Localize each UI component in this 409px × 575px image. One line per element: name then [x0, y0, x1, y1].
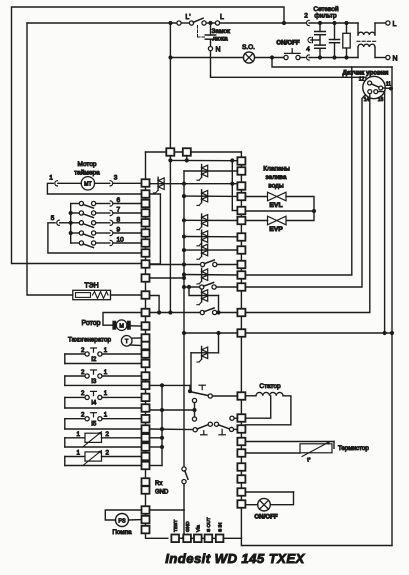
- lamp ON/OFF indicator: [245, 491, 293, 493]
- connector pin right column J2-15: [237, 414, 245, 422]
- node: inner right bus junction at T1 row: [230, 182, 234, 186]
- wire: tacho lower to pin: [130, 344, 142, 347]
- wire: R1 bottom row right: [150, 446, 163, 448]
- svg-text:t°: t°: [307, 458, 310, 464]
- contact: lock switch terminals L: [202, 21, 206, 25]
- node: T8 junction on SW3 row: [216, 310, 220, 314]
- node: junction V1 loop: [282, 21, 286, 25]
- svg-text:L: L: [393, 21, 397, 28]
- contact B2: [208, 422, 212, 426]
- contact C at stator pin: [230, 416, 234, 420]
- wire: tacho upper to pin: [131, 337, 141, 339]
- svg-text:EVL: EVL: [269, 202, 282, 209]
- connector pin left column J1-27: [142, 462, 150, 470]
- connector pin left column J1-4: [142, 209, 150, 217]
- connector pin left column J1-24: [142, 434, 150, 442]
- svg-text:2: 2: [81, 412, 85, 419]
- triac T9 branch to motor switches: [218, 333, 220, 353]
- connector pin left column J1-22: [142, 415, 150, 423]
- inductor: stator winding: [245, 395, 256, 397]
- connector pin S OUT: [205, 535, 213, 543]
- wire: contact 8 to pin: [113, 222, 141, 224]
- wire: pin 3 to module: [113, 182, 141, 184]
- connector pin right column J2-17: [237, 438, 245, 446]
- svg-text:2: 2: [81, 347, 85, 354]
- connector pin left column J1-31: [142, 516, 150, 524]
- wire: heater to pin: [111, 294, 142, 296]
- svg-text:Датчик уровня: Датчик уровня: [343, 70, 389, 77]
- connector pin right column J2-20: [237, 475, 245, 483]
- thermistor body: [245, 441, 334, 443]
- connector pin right column J2-2: [237, 167, 245, 175]
- svg-text:1: 1: [104, 390, 108, 397]
- connector pin left column J1-23: [142, 425, 150, 433]
- wire w5: return row to right bus: [245, 332, 392, 334]
- capacitor C2 lower Y-cap: [315, 44, 326, 46]
- svg-text:2: 2: [106, 431, 110, 438]
- contact: lock switch terminals L': [177, 21, 181, 25]
- switch: reversal blade 2: [197, 425, 208, 429]
- wire w3: contact 14 down to module: [245, 94, 369, 313]
- wire: test switch tap to pin: [150, 509, 185, 511]
- connector pin right column J2-16: [237, 425, 245, 433]
- switch: button I3: [64, 376, 66, 385]
- wire: second rail y=160.4: [170, 159, 237, 161]
- triac T6 row: [182, 248, 186, 252]
- wire: rotor right to pin: [131, 325, 142, 327]
- wire: MT-return stub to V1 row: [150, 194, 161, 264]
- wire: lamp to ON/OFF switch: [255, 57, 284, 59]
- connector pin left column J1-10: [142, 274, 150, 282]
- node: valves common junction: [312, 209, 316, 213]
- wire: stub bus x=162: [161, 385, 163, 465]
- wire: pot R2 return: [65, 465, 142, 467]
- svg-text:2: 2: [81, 369, 85, 376]
- terminal: N output: [386, 55, 390, 59]
- motor MT timer: [81, 177, 94, 190]
- wire: module top rail y=152: [146, 151, 242, 153]
- svg-text:M: M: [119, 324, 124, 330]
- connector pin right column J2-5: [237, 207, 245, 215]
- connector pin right column J2-3: [237, 182, 245, 190]
- connector pin right column J2-14: [237, 392, 245, 400]
- svg-text:PS: PS: [118, 518, 126, 524]
- inductor L1 top winding: [357, 23, 359, 35]
- node: T1 junction on bus: [182, 182, 186, 186]
- link: actuator T mark 2: [203, 431, 205, 435]
- connector pin TEST: [171, 535, 179, 543]
- wire: R1 top row right: [150, 437, 163, 439]
- svg-text:Мотор: Мотор: [77, 161, 96, 168]
- triac T1 row: [150, 183, 238, 185]
- inductor L2 bottom winding: [357, 47, 359, 58]
- svg-text:GND: GND: [155, 490, 169, 496]
- connector pin right column J2-22: [237, 500, 245, 508]
- switch row SW3 rotor feed: [150, 312, 201, 314]
- node: rail2 junctions: [168, 158, 172, 162]
- svg-text:N: N: [215, 47, 220, 54]
- connector pin left column J1-21: [142, 404, 150, 412]
- wire: S2 stub down to rail2: [186, 156, 188, 161]
- connector pin right column J2-4: [237, 193, 245, 201]
- triac T1: [158, 178, 164, 183]
- connector pin right column J2-19: [237, 463, 245, 471]
- svg-text:S.O.: S.O.: [242, 44, 255, 51]
- svg-text:EVP: EVP: [269, 226, 283, 233]
- wire: door lock N down and right to sensor: [210, 51, 212, 76]
- node: junction SO wire at lock bus: [168, 55, 172, 59]
- pressure switch: sensor circle: [363, 76, 385, 98]
- connector pin left column J1-20: [142, 394, 150, 402]
- terminal: pin 4: [307, 55, 310, 60]
- valve EVP: [268, 216, 277, 225]
- svg-text:ON/OFF: ON/OFF: [254, 514, 278, 521]
- connector pin left column J1-14: [142, 334, 150, 342]
- connector pin right column J2-10: [237, 271, 245, 279]
- wire: row to switch B: [150, 428, 194, 431]
- wire: pot R1 return: [65, 446, 142, 448]
- switch: sensor blade 12-11: [371, 84, 379, 87]
- wire: pump left loop to pin: [105, 510, 141, 520]
- triac T2 row: [184, 170, 237, 172]
- wire: pin 5 loop down to module pin: [48, 223, 142, 253]
- generator T tacho: [121, 336, 132, 347]
- node: junction on bus: [182, 276, 186, 280]
- connector pin left column J1-12: [142, 309, 150, 317]
- contact B4: [229, 427, 233, 431]
- svg-text:2: 2: [304, 13, 308, 20]
- contact: aux pair upper: [192, 398, 196, 402]
- connector pin right column J2-7: [237, 233, 245, 241]
- node: junction at right bus: [389, 87, 393, 91]
- connector pin left column J1-26: [142, 453, 150, 461]
- svg-text:12: 12: [359, 77, 365, 83]
- wire: EVP feed: [245, 220, 267, 222]
- wire: blade3 to pin: [234, 428, 238, 430]
- connector pin left column J1-28: [142, 478, 150, 486]
- wire: top L rail y=23: [27, 22, 177, 24]
- wire: button I2 return: [65, 363, 142, 365]
- svg-text:Vla: Vla: [196, 525, 202, 532]
- potentiometer R2: [64, 457, 66, 466]
- terminal: pin 2: [307, 20, 310, 25]
- lamp S.O.: [243, 52, 254, 63]
- connector pin left column J1-8: [142, 249, 150, 257]
- svg-text:Rx: Rx: [155, 481, 162, 487]
- node: return row junction on right bus: [390, 331, 394, 335]
- connector pin right column J2-13: [237, 329, 245, 337]
- wire: left column ladder rail: [145, 179, 147, 533]
- terminal: Y-cap midpoint tap: [311, 39, 320, 41]
- node: T8 tap: [187, 285, 191, 289]
- contact: N terminal of door lock: [208, 47, 212, 51]
- switch row SW1: [182, 262, 186, 266]
- wire: aux row from pin: [150, 409, 195, 411]
- connector pin left column J1-25: [142, 443, 150, 451]
- wire w4: contact 16 down to return row: [378, 92, 385, 333]
- svg-text:1: 1: [104, 347, 108, 354]
- svg-text:1: 1: [104, 369, 108, 376]
- node: aux tap: [192, 408, 196, 412]
- connector pin right column J2-8: [237, 246, 245, 254]
- svg-text:Тахогенератор: Тахогенератор: [68, 336, 111, 343]
- svg-text:N: N: [393, 55, 398, 62]
- switch: test switch on bus: [182, 467, 186, 471]
- svg-text:люка: люка: [213, 36, 229, 43]
- svg-text:Помпа: Помпа: [112, 529, 132, 536]
- wire: pin1 loop to MT-return pin: [47, 183, 141, 194]
- connector pin left column J1-19: [142, 382, 150, 390]
- svg-text:Статор: Статор: [259, 383, 281, 390]
- connector pin left column J1-32: [142, 526, 150, 534]
- node: heater stub junction: [157, 310, 161, 314]
- node: lock bus junction on rotor row: [168, 310, 172, 314]
- wire w2: sensor to module: [245, 95, 365, 287]
- svg-text:16: 16: [378, 97, 384, 103]
- node: T9 tap: [216, 331, 220, 335]
- contact B3: [214, 422, 218, 426]
- wire: cam switch bus: [70, 204, 72, 244]
- connector pin left column J1-7: [142, 239, 150, 247]
- connector pin left column J1-29: [142, 486, 150, 494]
- contact 11: [379, 86, 383, 90]
- connector pin right column J2-21: [237, 488, 245, 496]
- wire: EVL to common node: [286, 197, 314, 212]
- switch: timer cam contact 10: [71, 242, 80, 244]
- svg-text:залива: залива: [265, 174, 286, 181]
- heater TEN body: [73, 290, 111, 299]
- svg-text:I2: I2: [91, 356, 97, 363]
- component: door lock thermal element: [210, 23, 212, 35]
- wire: button I3 return: [65, 384, 142, 386]
- connector pin left column J1-9: [142, 260, 150, 268]
- wire: row from pin to pivot: [150, 384, 191, 386]
- svg-text:3: 3: [114, 175, 118, 182]
- switch: button I4: [64, 397, 66, 408]
- wire: to stator pin: [212, 395, 237, 397]
- switch: reversal blade 3: [218, 425, 229, 429]
- wire: contact 7 to pin: [113, 212, 141, 214]
- svg-text:S OUT: S OUT: [206, 517, 212, 532]
- wire: valves common return: [245, 210, 314, 212]
- wire: lock bus continuation down to rotor switch row: [169, 160, 171, 312]
- svg-text:GND: GND: [185, 521, 191, 532]
- connector pin GND: [183, 535, 191, 543]
- wire: stator outer return: [245, 396, 291, 425]
- connector pin right column J2-9: [237, 261, 245, 269]
- svg-text:14: 14: [364, 97, 370, 103]
- contact: aux pair lower: [192, 417, 196, 421]
- switch: timer cam contact 6: [71, 203, 80, 205]
- svg-text:L': L': [185, 14, 190, 21]
- svg-text:2: 2: [106, 450, 110, 457]
- node: reversal pivot: [188, 389, 192, 393]
- switch row SW2: [182, 285, 186, 289]
- connector S2 on top rail: [183, 148, 191, 156]
- triac T8 branch: [189, 287, 219, 296]
- wire: inner bus x=184: [183, 171, 185, 467]
- connector S1 on top rail: [166, 148, 174, 156]
- svg-text:5: 5: [51, 215, 55, 222]
- connector pin left column J1-13: [142, 322, 150, 330]
- contact B1: [193, 428, 197, 432]
- wire: row y=333: [182, 331, 186, 335]
- pump PS: [116, 514, 129, 527]
- wire: switch to pin 4: [300, 57, 305, 59]
- wire: contact 10 to pin: [113, 242, 141, 244]
- triac T5 row: [182, 234, 186, 238]
- wire: filter bottom rail: [309, 57, 358, 59]
- wire: EVP to common node: [286, 211, 314, 221]
- wire: inner right bus x=232.3: [231, 161, 233, 211]
- wire: pin row to bus: [150, 277, 185, 279]
- capacitor C3 X-cap: [334, 23, 336, 40]
- svg-text:L: L: [220, 14, 224, 21]
- wire: right rail corner down to first square: [240, 152, 242, 157]
- connector pin left column J1-15: [142, 342, 150, 350]
- wire: V2 left vertical to heater: [27, 23, 73, 295]
- wire: contact 6 to pin: [113, 203, 141, 205]
- triac T4 row to EVP pin: [182, 218, 186, 222]
- connector pin right column J2-18: [237, 449, 245, 457]
- connector pin left column J1-1: [142, 179, 150, 187]
- wire: sensor box top from ON/OFF junction: [272, 58, 392, 68]
- node: junction to sensor box top wire: [270, 55, 274, 59]
- wire: contact C to pin: [234, 417, 237, 419]
- svg-text:ON/OFF: ON/OFF: [276, 40, 300, 47]
- svg-text:Ротор: Ротор: [81, 320, 100, 327]
- connector pin Vla: [194, 535, 202, 543]
- triac T7 row: [182, 272, 186, 276]
- connector pin left column J1-17: [142, 360, 150, 368]
- svg-text:ТЭН: ТЭН: [84, 283, 98, 290]
- switch: timer cam contact 8: [71, 222, 80, 224]
- link: dashed mechanical coupling of lock: [197, 26, 199, 38]
- svg-text:Клапаны: Клапаны: [263, 166, 290, 173]
- svg-text:S IN: S IN: [217, 522, 223, 532]
- node: filter rail junctions: [318, 21, 322, 25]
- connector pin left column J1-6: [142, 229, 150, 237]
- svg-text:TEST: TEST: [173, 520, 179, 532]
- svg-text:I3: I3: [91, 378, 97, 385]
- resistor: heater zigzag: [93, 292, 109, 299]
- svg-text:Термистор: Термистор: [338, 445, 369, 452]
- connector pin left column J1-3: [142, 200, 150, 208]
- svg-text:МТ: МТ: [84, 182, 92, 188]
- svg-text:Замок: Замок: [212, 28, 231, 35]
- svg-text:1: 1: [49, 175, 53, 182]
- node: junction top rail to lock bus: [168, 21, 172, 25]
- node: cam bus junctions: [69, 211, 73, 215]
- svg-text:1: 1: [77, 431, 81, 438]
- valve EVL: [268, 192, 277, 201]
- svg-text:воды: воды: [268, 183, 284, 190]
- connector pin right column J2-12: [237, 309, 245, 317]
- wire: bottom return to right bus: [241, 538, 392, 545]
- wire: right column ladder rail: [240, 157, 242, 508]
- connector pin left column J1-16: [142, 350, 150, 358]
- svg-text:I5: I5: [91, 421, 97, 428]
- contact 16: [374, 90, 378, 94]
- connector pin left column J1-2: [142, 190, 150, 198]
- connector pin left column J1-11: [142, 291, 150, 299]
- svg-text:2: 2: [81, 390, 85, 397]
- node: junction to door lock element: [208, 21, 212, 25]
- node: junction bottom row: [182, 536, 186, 540]
- svg-text:Indesit WD 145 TXEX: Indesit WD 145 TXEX: [165, 551, 305, 566]
- wire: down to bottom row: [183, 510, 185, 538]
- switch: button I2: [64, 354, 66, 364]
- wire: R2 bottom row right: [150, 465, 163, 467]
- contact: blade 1 output: [208, 394, 212, 398]
- connector pin left column J1-5: [142, 219, 150, 227]
- terminal: pin 1: [58, 182, 81, 184]
- link: actuator T mark 3: [221, 429, 223, 434]
- svg-text:1: 1: [77, 450, 81, 457]
- triac T3 row to EVL pin: [182, 194, 186, 198]
- contact 14: [368, 90, 372, 94]
- switch: ON/OFF pushbutton actuator: [285, 52, 301, 54]
- wire: button I5 return: [65, 428, 142, 430]
- wire: row to right column: [223, 508, 241, 539]
- terminal: L output: [386, 21, 390, 25]
- wire: right return bus x=392: [391, 67, 393, 546]
- wire: stator winding tap return: [245, 396, 270, 418]
- contact: ON/OFF switch: [284, 55, 288, 59]
- core: dashed line: [357, 40, 376, 42]
- wire: V1 big loop over top and left side: [12, 7, 285, 264]
- wire: heater pin stub to rotor row: [150, 296, 160, 313]
- connector pin right column J2-1: [237, 157, 245, 165]
- wire: lock bus down through S1: [169, 23, 171, 148]
- terminal: pin 5: [60, 222, 71, 224]
- svg-text:4: 4: [306, 46, 310, 53]
- connector pin left column J1-30: [142, 506, 150, 514]
- connector pin S IN: [216, 535, 224, 543]
- svg-text:1: 1: [104, 412, 108, 419]
- motor M rotor with brushes: [112, 321, 116, 330]
- terminal: pin 3: [95, 182, 110, 184]
- wire: column down to bottom row: [146, 533, 168, 538]
- wire: left column rail stub up: [145, 152, 147, 179]
- svg-text:фильтр: фильтр: [314, 13, 337, 20]
- wire: contact 9 to pin: [113, 232, 141, 234]
- node: w4 junction on return row: [383, 331, 387, 335]
- svg-text:I4: I4: [91, 399, 97, 406]
- connector pin left column J1-18: [142, 372, 150, 380]
- link: actuator T mark 1: [199, 384, 205, 386]
- wire: aux pair link: [194, 403, 196, 417]
- switch: button I5: [64, 419, 66, 429]
- wire: S.O. row y=57.5: [171, 57, 244, 59]
- contact 12: [368, 81, 372, 85]
- wire w1: box left down to module: [245, 67, 351, 275]
- svg-text:таймера: таймера: [74, 169, 100, 177]
- potentiometer R1: [64, 438, 66, 447]
- switch: door interlock blade: [193, 18, 203, 22]
- wire: rotor left up to pin: [103, 313, 142, 326]
- connector pin right column J2-6: [237, 217, 245, 225]
- connector pin right column J2-11: [237, 283, 245, 291]
- wire: thermistor lower to pin: [245, 452, 300, 454]
- switch: timer cam contact 9: [71, 232, 80, 234]
- wire: contact 11 to right bus: [383, 87, 391, 89]
- wire: filter top rail: [309, 22, 358, 24]
- wire: EVL feed: [245, 196, 267, 198]
- resistor R filter bleeder: [346, 23, 348, 33]
- node: stub junctions: [160, 383, 164, 387]
- switch: timer cam contact 7: [71, 212, 80, 214]
